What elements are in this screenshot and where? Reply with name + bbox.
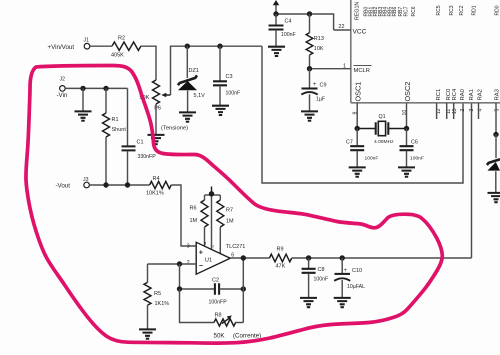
svg-text:U1: U1	[205, 258, 212, 264]
svg-text:C3: C3	[226, 74, 233, 80]
svg-text:(Corrente): (Corrente)	[233, 333, 261, 340]
svg-text:10K: 10K	[314, 46, 324, 52]
svg-text:OSC1: OSC1	[354, 82, 363, 102]
svg-text:8: 8	[204, 241, 207, 246]
connector J1	[84, 38, 90, 50]
svg-text:R8: R8	[215, 313, 222, 319]
svg-text:100nF: 100nF	[281, 32, 296, 38]
svg-text:VCC: VCC	[353, 29, 367, 36]
junction C2 right	[241, 286, 246, 291]
ground under trimmer	[148, 135, 165, 144]
junction R1 bottom	[103, 182, 108, 187]
svg-text:DZ1: DZ1	[189, 68, 199, 74]
junction R1 top	[103, 86, 108, 91]
node dot C3	[217, 44, 222, 49]
svg-text:R7: R7	[226, 208, 233, 214]
svg-text:7: 7	[212, 244, 215, 249]
svg-text:50K: 50K	[214, 333, 226, 340]
wire -Vin rail	[65, 87, 127, 89]
junction OSC1	[355, 126, 360, 131]
junction C8	[306, 255, 311, 260]
resistor R5 1K1%	[144, 264, 169, 329]
op-amp U1 TLC271	[187, 241, 246, 275]
ground under C8	[300, 298, 317, 307]
ground under C4	[268, 47, 285, 56]
svg-text:RC0: RC0	[446, 88, 452, 101]
IC PIC box	[351, 0, 500, 103]
junction ground branch	[80, 86, 85, 91]
pin 22 wire VCC	[334, 24, 351, 30]
ground at -Vin	[75, 111, 92, 120]
wire trimmer bottom to ground	[155, 104, 157, 135]
svg-text:+: +	[344, 268, 348, 274]
svg-text:RD0: RD0	[495, 5, 500, 15]
pin stub RA3	[495, 103, 497, 135]
wire R2 to trimmer top	[141, 46, 156, 80]
svg-text:1M: 1M	[226, 219, 234, 225]
pin labels top row	[364, 5, 500, 16]
junction C4	[273, 11, 278, 16]
resistor R4 10K1%	[146, 176, 171, 197]
pin stub RA2	[478, 103, 480, 119]
svg-text:2: 2	[187, 260, 190, 266]
svg-text:1µF: 1µF	[316, 97, 325, 103]
pin labels bottom right	[436, 88, 500, 101]
junction pin2/C2	[177, 261, 182, 266]
svg-text:1: 1	[343, 64, 346, 70]
svg-text:10K1%: 10K1%	[146, 191, 164, 197]
ground under C9	[301, 111, 318, 120]
svg-text:2: 2	[460, 109, 466, 112]
svg-text:C9: C9	[320, 83, 327, 89]
svg-text:10µFAL: 10µFAL	[347, 284, 365, 290]
svg-text:J3: J3	[83, 177, 89, 183]
svg-text:-Vin: -Vin	[57, 92, 68, 99]
connector J3	[83, 177, 89, 188]
trimmer P6 50K (Tensione)	[140, 80, 171, 112]
svg-text:4.00MHz: 4.00MHz	[374, 139, 394, 145]
junction OSC2	[404, 126, 409, 131]
svg-text:+Vin/Vout: +Vin/Vout	[48, 44, 75, 51]
capacitor C9 1uF electrolytic	[301, 69, 326, 111]
junction R13 top	[307, 11, 312, 16]
junction output/R8	[241, 255, 246, 260]
capacitor C6	[400, 129, 424, 168]
svg-text:REG1N: REG1N	[355, 2, 361, 20]
svg-text:+: +	[313, 82, 317, 88]
svg-text:RC7: RC7	[404, 6, 410, 16]
wire op-amp pin 2	[148, 263, 197, 265]
svg-text:−: −	[199, 261, 203, 270]
svg-text:C7: C7	[346, 140, 353, 146]
resistor R13 10K	[306, 14, 324, 69]
svg-text:C10: C10	[352, 268, 362, 274]
svg-text:(Tensione): (Tensione)	[161, 126, 188, 132]
resistor R6 1M	[190, 195, 209, 246]
svg-text:J2: J2	[60, 77, 66, 83]
svg-text:3: 3	[187, 244, 190, 250]
svg-text:100nF: 100nF	[226, 91, 241, 97]
svg-text:C4: C4	[285, 19, 292, 25]
svg-text:R1: R1	[112, 117, 119, 123]
svg-text:C8: C8	[318, 267, 325, 273]
resistor R7 1M	[217, 195, 234, 254]
capacitor C4 100nF	[269, 14, 296, 46]
svg-text:RA2: RA2	[478, 89, 484, 100]
resistor R1 Shunt	[103, 88, 127, 185]
svg-text:Q1: Q1	[379, 114, 386, 120]
svg-text:R9: R9	[277, 247, 284, 253]
capacitor C1 330nFP	[122, 88, 157, 185]
svg-text:100nF: 100nF	[365, 156, 379, 162]
svg-text:RC2: RC2	[459, 5, 465, 15]
ground under DZ2	[488, 193, 500, 202]
svg-text:P6: P6	[154, 106, 161, 112]
svg-text:OSC2: OSC2	[403, 82, 412, 102]
junction C10	[340, 255, 345, 260]
svg-text:C2: C2	[212, 278, 219, 284]
capacitor C8 100nF	[302, 258, 329, 298]
ground under C10	[334, 298, 351, 307]
pin numbers bottom right	[436, 108, 500, 114]
ground under DZ1	[179, 112, 196, 121]
junction C2 left	[177, 286, 182, 291]
pin 1 wire MCLR	[310, 64, 351, 70]
svg-text:C6: C6	[411, 140, 418, 146]
svg-text:3: 3	[469, 109, 475, 112]
svg-text:RC1: RC1	[436, 89, 442, 101]
zener DZ2	[487, 135, 500, 193]
ground under C7	[349, 167, 366, 176]
svg-text:TLC271: TLC271	[226, 244, 246, 250]
svg-text:R5: R5	[154, 291, 161, 297]
svg-text:RC5: RC5	[436, 5, 442, 15]
highlight loop	[26, 66, 442, 344]
svg-text:RC6: RC6	[411, 6, 417, 16]
wire op-amp output	[230, 257, 269, 259]
svg-text:5,1V: 5,1V	[194, 93, 206, 99]
svg-text:-Vout: -Vout	[56, 183, 71, 190]
capacitor C10 10uF electrolytic	[334, 258, 365, 298]
svg-text:R2: R2	[118, 36, 125, 42]
trimmer R8 50K (Corrente)	[180, 258, 262, 340]
wire to ground	[82, 88, 84, 111]
svg-text:Shunt: Shunt	[112, 127, 127, 133]
capacitor C3 100nF	[213, 46, 240, 105]
svg-text:RC4: RC4	[452, 88, 458, 101]
wire +V sense to PIC pin RA0	[262, 46, 463, 183]
svg-text:RA0: RA0	[460, 88, 466, 100]
svg-text:RA1: RA1	[469, 89, 475, 100]
ground under R5	[139, 329, 156, 338]
svg-text:405K: 405K	[111, 53, 124, 59]
wire -Vout rail	[89, 184, 149, 186]
pin stub OSC2	[406, 103, 408, 129]
node R6/R7 top	[205, 187, 221, 250]
svg-text:22: 22	[339, 24, 345, 30]
svg-text:R6: R6	[190, 206, 197, 212]
svg-text:330nFP: 330nFP	[138, 154, 157, 160]
ground under C6	[398, 167, 415, 176]
svg-text:100nF: 100nF	[410, 156, 424, 162]
node dot DZ1	[185, 44, 190, 49]
svg-text:J1: J1	[84, 38, 90, 44]
pin stub RC1	[436, 103, 438, 119]
wire wiper to +V rail	[171, 46, 263, 95]
svg-text:47K: 47K	[276, 264, 286, 270]
pin stub OSC1	[356, 103, 358, 129]
junction RA3	[493, 132, 498, 137]
svg-text:RD1: RD1	[472, 5, 478, 15]
wire R4 to op-amp pin 3	[171, 185, 196, 246]
svg-text:MCLR: MCLR	[354, 68, 370, 74]
pin stub RC0	[446, 103, 448, 119]
pin stub RC4	[453, 103, 455, 119]
junction R13 bottom / MCLR	[307, 66, 312, 71]
svg-text:+: +	[199, 247, 203, 256]
pin label MCLR	[354, 65, 372, 74]
svg-text:C1: C1	[137, 140, 144, 146]
ground under C3	[212, 106, 229, 115]
svg-text:RC3: RC3	[449, 5, 455, 15]
power +5V arrow	[273, 0, 280, 14]
svg-text:RA3: RA3	[495, 88, 500, 100]
zener DZ1 5.1V	[178, 46, 205, 112]
capacitor C7	[346, 129, 378, 168]
resistor R9 47K	[269, 247, 291, 270]
resistor R2	[111, 36, 141, 59]
wire R9 to PIC pin RA1	[292, 103, 472, 258]
svg-text:1K1%: 1K1%	[155, 301, 170, 307]
svg-text:R13: R13	[314, 36, 324, 42]
svg-text:100nF: 100nF	[314, 277, 329, 283]
svg-text:1M: 1M	[190, 218, 198, 224]
wire J1 to R2	[90, 45, 112, 47]
connector J2	[60, 77, 66, 92]
crystal Q1 4.00MHz	[357, 114, 406, 145]
junction C1 bottom	[125, 182, 130, 187]
svg-text:100nFP: 100nFP	[209, 300, 228, 306]
wire +5V rail	[276, 14, 334, 30]
svg-text:R4: R4	[153, 176, 160, 182]
capacitor C2 100nFP	[180, 264, 244, 306]
